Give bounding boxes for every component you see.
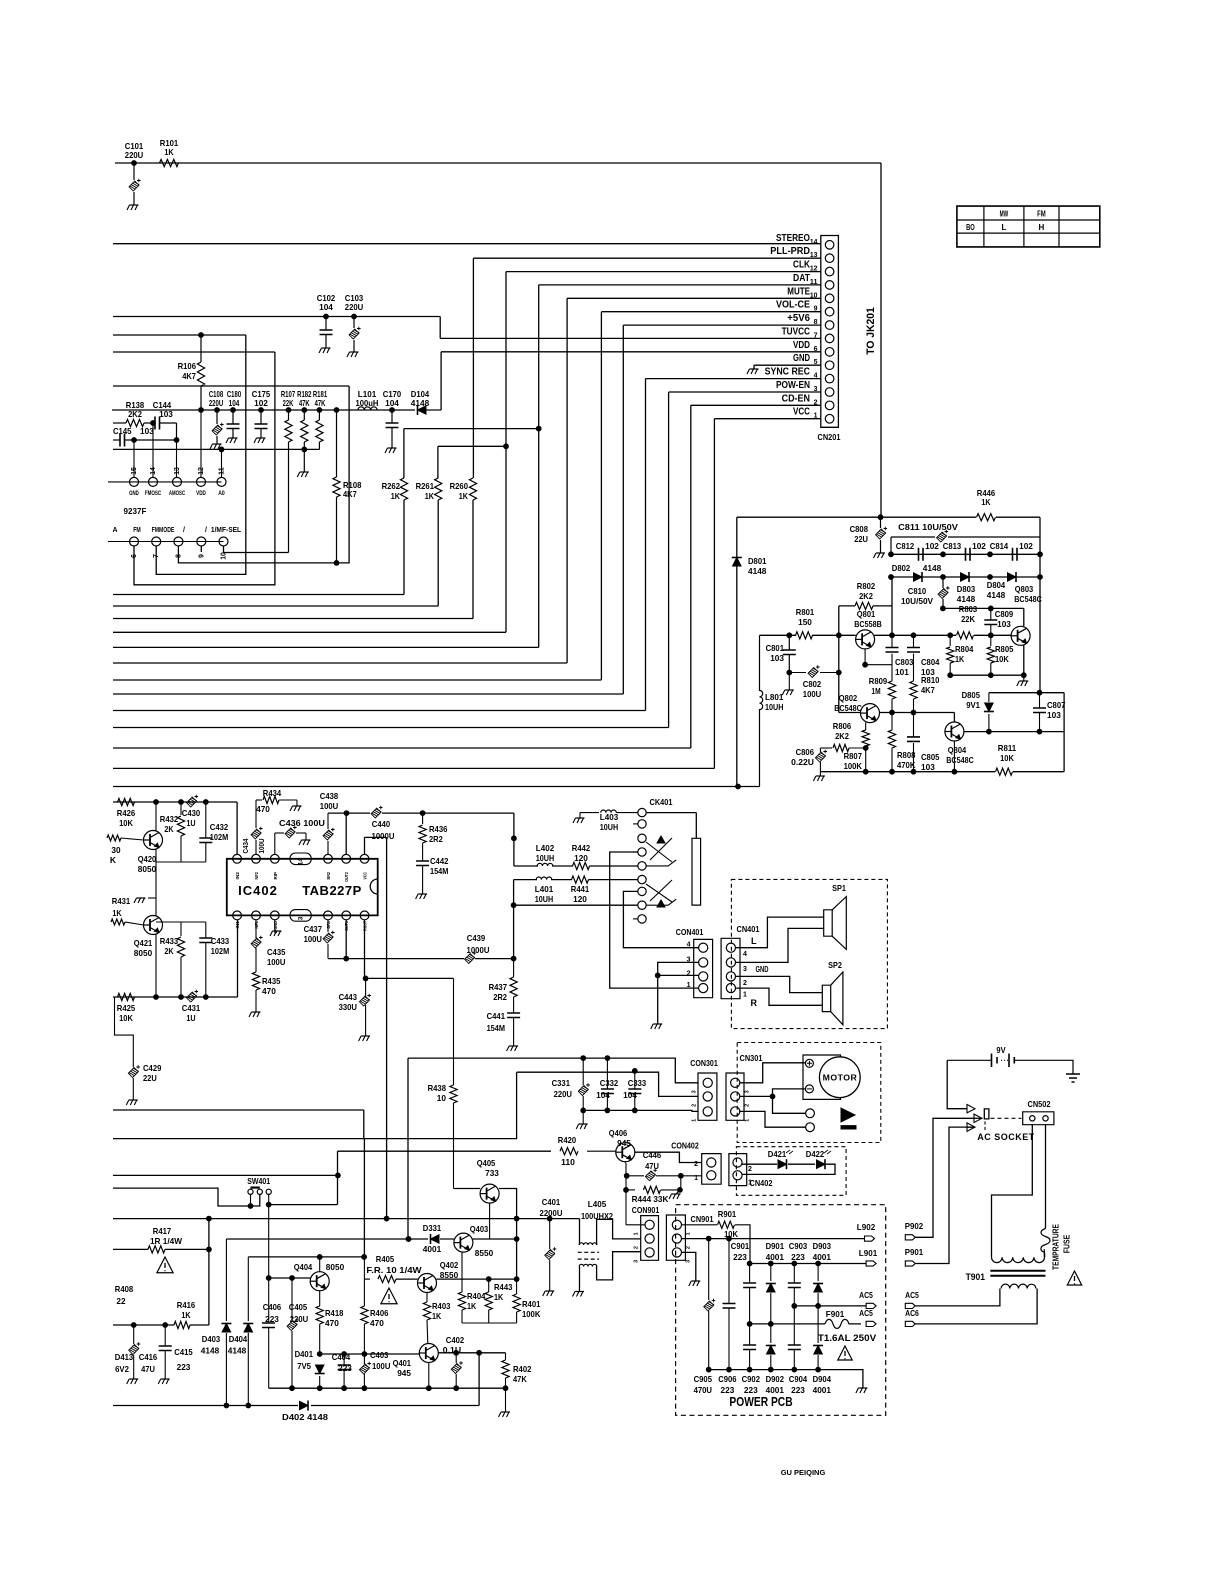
transformer T901 secondary [1001,1284,1036,1288]
ground power bottom [856,1388,868,1393]
svg-text:4001: 4001 [766,1252,785,1262]
capacitor C810 [901,577,950,611]
transformer T901 core [966,1271,1046,1282]
svg-text:223: 223 [177,1362,191,1372]
svg-text:C802: C802 [803,679,822,689]
resistor R107 [281,389,295,553]
svg-text:R: R [750,998,757,1008]
resistor R802 [839,581,892,610]
IC 9237F pin 15 GND [129,467,139,497]
CN201 pin 10 circle [787,285,834,302]
wire jack top to bar [646,813,696,839]
wire AC5 right to transformer [915,1289,1000,1306]
wire Q801 row right y635.3 [874,633,1011,638]
capacitor C807 [1033,693,1066,734]
transistor Q406 [609,1128,635,1162]
svg-text:R442: R442 [572,843,591,853]
ground R182 [297,472,309,477]
CON901 pin 1 [634,1220,655,1235]
AC socket arrows [967,1105,982,1132]
svg-text:100U: 100U [372,1361,390,1371]
CN301 pin 3 [731,1078,751,1093]
svg-text:Q403: Q403 [470,1224,489,1234]
terminal L901 [859,1248,878,1266]
wire CN401 pin2 to SP2 [736,976,823,992]
wire R182 ground stem [302,447,307,472]
capacitor C804 [907,648,940,678]
capacitor C443 [339,978,371,1036]
svg-text:H: H [1039,223,1045,232]
ground C180 [226,438,238,443]
svg-text:CON901: CON901 [632,1205,660,1215]
dashed link to CN502 [991,1117,1022,1119]
capacitor C801 [766,635,796,675]
svg-text:CON301: CON301 [690,1058,718,1068]
svg-text:R420: R420 [558,1135,577,1145]
label POWER PCB [729,1394,792,1409]
capacitor C416 [139,1325,172,1379]
wire bus line y663 [113,298,567,663]
svg-text:10K: 10K [119,1013,134,1023]
svg-text:C810: C810 [908,586,927,596]
svg-text:Q801: Q801 [857,609,876,619]
svg-text:1: 1 [686,1232,692,1235]
jack CK401 contact y812.6 [638,808,646,816]
svg-text:103: 103 [159,409,173,419]
label Q803 [1014,584,1042,604]
svg-text:8050: 8050 [326,1262,345,1272]
capacitor C808 [850,517,888,553]
CN201 pin 7 circle [782,325,834,342]
svg-text:R805: R805 [995,644,1014,654]
svg-text:R401: R401 [522,1299,541,1309]
wire L902 line y1238.3 [682,1236,865,1241]
IC 9237F pin 7 [152,537,161,558]
CN201 pin 2 circle [782,392,834,409]
svg-text:GU PEIQING: GU PEIQING [781,1468,826,1477]
svg-text:2: 2 [748,1166,752,1173]
IC 9237F pin 12 VDD [196,467,206,497]
ground C429 [126,1100,138,1105]
svg-text:NF2: NF2 [254,872,259,880]
svg-text:1: 1 [694,1175,698,1182]
wire pin12 VDD rail [199,408,204,478]
jack CK401 contact y905.2 [638,901,646,909]
svg-text:Q803: Q803 [1015,584,1034,594]
resistor R806 [820,721,865,752]
power PCB dashed box [676,1205,886,1416]
resistor R418 [316,1291,344,1357]
wire Q802 row y712.5 [879,713,954,723]
wire top rail y163 [115,162,881,164]
inductor L801 [760,690,784,712]
wire CN301 pin2 to motor minus [739,1089,805,1099]
svg-text:22K: 22K [283,398,294,408]
svg-text:4148: 4148 [201,1346,220,1356]
transformer L405 secondary [579,1252,641,1292]
wire pin8 path [178,386,349,563]
svg-text:223: 223 [338,1363,352,1373]
svg-text:R810: R810 [921,675,940,685]
svg-text:R443: R443 [494,1282,513,1292]
svg-text:/: / [183,527,185,534]
CON402 pin 1 [694,1171,716,1182]
svg-text:SP2: SP2 [828,960,842,970]
resistor R808 [888,730,916,770]
wire D805 line y692.7 [989,692,1064,694]
jack CK401 contact y865.9 [638,862,646,870]
wire jack7 to CON401 pin4 [623,891,698,947]
label GND [756,965,769,974]
svg-text:154M: 154M [430,866,448,876]
wire CN401 pin4 to SP1 [736,917,824,948]
svg-text:C145: C145 [113,426,132,436]
CON401 pin 1 [687,982,708,993]
svg-text:4001: 4001 [423,1244,442,1254]
resistor R803 [957,604,978,639]
svg-text:TEMPRATURE: TEMPRATURE [1051,1224,1061,1270]
terminal AC5 right [905,1290,919,1309]
svg-text:C436 100U: C436 100U [279,818,325,828]
resistor R801 [796,607,815,639]
svg-text:223: 223 [791,1385,805,1395]
resistor R260 [450,258,477,618]
svg-text:C441: C441 [487,1011,506,1021]
CN301 pin 1 [731,1107,751,1122]
motor body [803,1055,860,1099]
svg-text:CN201: CN201 [818,432,841,442]
capacitor C103 [345,293,364,352]
capacitor C415 [174,1347,193,1372]
svg-text:FUSE: FUSE [1062,1235,1072,1254]
svg-text:220U: 220U [345,302,363,312]
resistor R401 [513,1279,541,1323]
svg-text:FM: FM [1037,210,1046,219]
svg-text:1K: 1K [391,491,401,501]
svg-text:1K: 1K [181,1310,191,1320]
wire L901 top bus y1263.5 [747,1261,866,1266]
wire Q401 base line y1354 [320,1352,420,1357]
svg-text:1: 1 [692,1119,698,1122]
svg-text:1/MF-SEL: 1/MF-SEL [211,527,242,534]
wire pin2 CD-EN [691,404,821,406]
ground CON401 [651,1024,663,1029]
wire pin8 +5V6 [623,324,821,326]
svg-text:104: 104 [623,1090,637,1100]
CN201 pin 9 circle [776,299,834,316]
wire bus line y727.5 [113,392,669,728]
svg-text:C901: C901 [731,1241,750,1251]
CN201 pin 6 circle [793,339,834,356]
svg-text:R436: R436 [429,824,448,834]
ground R435 [249,1012,261,1017]
svg-text:MUTE: MUTE [787,285,810,297]
svg-text:470: 470 [262,986,276,996]
wire bus line y618.5 [113,618,473,620]
motor switch contact upper [806,1108,855,1122]
ground C443 [359,1036,371,1041]
capacitor C433 [199,922,229,997]
wire bus line y647.4 [113,285,539,648]
jack CK401 contact y891.4 [638,887,646,895]
svg-text:C331: C331 [552,1078,571,1088]
resistor R434 [256,788,297,814]
table MW FM [957,206,1100,247]
wire bottom bus y1369.6 [709,1370,863,1388]
svg-text:C406: C406 [263,1302,282,1312]
svg-text:104: 104 [229,398,240,408]
svg-text:3: 3 [692,1090,698,1093]
svg-text:8550: 8550 [475,1248,494,1258]
jack stubs [633,824,638,919]
label CN402 [750,1178,773,1188]
svg-text:SW401: SW401 [247,1176,270,1186]
ground C441 [507,1046,518,1051]
wire D404 top line y1256.9 [248,1255,366,1260]
svg-text:C430: C430 [182,808,201,818]
jack CK401 label [650,797,673,807]
wire pin7 path [156,335,246,574]
svg-text:R801: R801 [796,607,815,617]
resistor R405 [364,1254,423,1283]
capacitor C405 [287,1278,308,1391]
wire R417 line y1249.4 [113,1247,211,1252]
capacitor C434 with R434 [243,800,266,854]
speaker SP1 [824,883,847,949]
svg-text:IN2: IN2 [235,872,240,880]
svg-text:C435: C435 [267,947,286,957]
IC402 top pin NF2 [252,854,261,879]
svg-text:4001: 4001 [813,1385,832,1395]
wire pin10 MUTE [567,297,821,299]
svg-text:C433: C433 [211,936,230,946]
wire pin11 DAT [539,284,821,286]
svg-text:TUVCC: TUVCC [782,325,811,337]
svg-text:C808: C808 [850,524,869,534]
label CN901 [691,1214,714,1224]
ground CN901 pin3 [689,1281,701,1286]
svg-text:223: 223 [265,1314,279,1324]
svg-text:0.22U: 0.22U [791,757,814,767]
svg-text:1K: 1K [459,491,469,501]
svg-text:220U: 220U [290,1314,308,1324]
capacitor C108 [209,389,224,444]
terminal AC5 upper [859,1290,876,1309]
ground C801 C802 [782,673,794,696]
svg-text:AC SOCKET: AC SOCKET [977,1132,1035,1142]
svg-text:GND: GND [793,352,810,364]
wire OUT1 to y958.6 [344,920,349,961]
wire top rail x881 from y163 [880,163,882,517]
svg-text:CK401: CK401 [650,797,673,807]
label CON401 [676,927,704,937]
svg-text:D402 4148: D402 4148 [282,1412,328,1422]
svg-text:L405: L405 [588,1199,607,1209]
wire R-channel drop x513.9 [512,813,517,866]
switch SW401 [247,1176,271,1206]
CN201 pin 12 circle [793,259,834,276]
svg-text:FM: FM [133,527,141,534]
capacitor C431 [182,990,201,1023]
svg-text:100U: 100U [267,957,285,967]
wire R404 R443 R401 bottoms [462,1322,517,1324]
capacitor C438 [320,791,339,854]
transistor Q804 [945,722,974,765]
svg-text:102M: 102M [211,946,229,956]
wire y1188.1 line to SW401 [113,1188,260,1208]
wire ROUT to y978.4 [363,920,368,981]
svg-text:2: 2 [743,980,747,987]
wire Q801 row y635.3 [760,633,856,638]
svg-text:22U: 22U [854,534,868,544]
svg-text:L902: L902 [857,1222,876,1232]
svg-text:100U: 100U [803,689,821,699]
svg-text:14: 14 [298,858,305,865]
wire DAT tap y428.6 [404,426,541,431]
CN401 pin 4 [726,943,747,958]
terminal L902 [857,1222,876,1241]
wire SP1 return to pin3 [736,928,824,962]
svg-text:D404: D404 [229,1334,248,1344]
svg-text:945: 945 [397,1368,411,1378]
svg-text:BC548C: BC548C [946,755,974,765]
svg-text:C429: C429 [143,1063,162,1073]
capacitor C439 [465,933,490,964]
wire Q420 rail x156 [155,802,157,997]
svg-text:470: 470 [256,804,270,814]
resistor R441 [571,876,590,904]
svg-text:100U: 100U [304,934,322,944]
wire arrow3 from P901 [967,1126,974,1128]
svg-text:22K: 22K [961,614,976,624]
diode D804 [987,572,1016,600]
svg-text:L402: L402 [536,843,555,853]
svg-text:MW: MW [1000,210,1009,219]
svg-text:4001: 4001 [813,1252,832,1262]
svg-text:VDD: VDD [196,491,206,497]
wire R432 C432 mid join [156,862,206,922]
svg-text:13: 13 [174,467,181,475]
transistor Q802 [834,693,879,723]
terminal P901 [905,1247,924,1266]
diode D104 [411,389,441,415]
svg-text:C813: C813 [943,541,962,551]
transistor Q405 [477,1158,499,1203]
IC402 top pin IN2 [233,854,242,879]
svg-text:4148: 4148 [411,398,430,408]
svg-text:101: 101 [895,667,909,677]
wire AC5 upper line y1305.9 [794,1305,866,1307]
wire motor line y1072.2 [517,1069,699,1097]
svg-text:R807: R807 [844,751,863,761]
svg-text:2R2: 2R2 [429,834,443,844]
CN201 pin 13 circle [770,245,834,262]
svg-text:10UH: 10UH [536,853,554,863]
capacitor C429 [115,997,162,1100]
svg-text:2K2: 2K2 [859,591,873,601]
svg-text:C401: C401 [542,1197,561,1207]
diode D802 [892,563,942,582]
svg-text:223: 223 [721,1385,735,1395]
svg-text:AMOSC: AMOSC [169,491,186,497]
wire CN301 pin1 to motor plus [739,1063,805,1083]
svg-text:2: 2 [692,1104,698,1107]
transistor Q403 [454,1224,494,1258]
ground C416 [158,1379,170,1384]
ground C108 [210,444,222,449]
IC 9237F pin 14 FMOSC [145,467,162,497]
wire D402 line y1405.5 [113,1405,479,1407]
svg-text:A: A [112,527,117,534]
capacitor C436 [275,818,325,854]
svg-text:Q405: Q405 [477,1158,496,1168]
svg-text:2: 2 [745,1104,751,1107]
svg-text:C416: C416 [139,1352,158,1362]
wire bottom row y771.7 [820,693,1064,776]
wire Q406 collector to CON402 pin2 [635,1152,702,1162]
CN201 pin 5 circle [793,352,834,369]
wire L801 rail [759,635,761,786]
wire y335 rail [113,334,246,336]
diode D903 D904 rail [813,1241,832,1395]
wire Q401 emitter [426,1362,431,1390]
IC402 body [227,859,378,916]
connector CN201 body [821,236,839,428]
ground C102 [319,348,331,353]
svg-text:R901: R901 [718,1209,737,1219]
CN301 pin 2 [731,1092,751,1107]
svg-text:C405: C405 [289,1302,308,1312]
capacitor C813 [943,541,986,561]
svg-text:4148: 4148 [923,563,942,573]
IC 9237F pin 13 AMOSC [169,467,186,497]
wire L403 ground feed [573,813,599,823]
terminal AC6 [905,1308,919,1327]
svg-text:1K: 1K [494,1292,504,1302]
svg-text:47U: 47U [141,1364,155,1374]
svg-text:4K7: 4K7 [182,371,196,381]
wire Q801 base rail / Q802 base [839,712,861,714]
resistor R446 [977,488,996,521]
IC402 top pin OUT2 [342,854,351,882]
transformer L405 primary [579,1219,641,1245]
CN901 pin 1 [672,1220,691,1235]
svg-text:R437: R437 [489,982,508,992]
IC402 pin oval 14 [290,853,311,865]
resistor R138 [113,400,151,427]
svg-text:R416: R416 [177,1300,196,1310]
CON401 pin 4 [687,942,708,953]
wire jack4 drop to CON401 pin1 [610,852,699,988]
ground C436 [299,840,311,845]
ground R434 [290,806,302,811]
svg-text:D421: D421 [768,1149,787,1159]
svg-text:10UH: 10UH [765,702,783,712]
wire Q401 right line y1352.8 [438,1350,505,1355]
svg-text:FMMODE: FMMODE [152,527,175,534]
svg-text:R408: R408 [115,1284,134,1294]
svg-text:Q802: Q802 [839,693,858,703]
svg-text:150: 150 [798,617,812,627]
wire pin10 path [224,546,289,553]
svg-text:1K: 1K [981,497,991,507]
svg-text:4148: 4148 [987,590,1006,600]
transistor Q401 [393,1344,439,1379]
wire pin6 path [134,352,275,585]
svg-text:IN1: IN1 [235,921,240,929]
wire Q804 to bottom [952,741,957,774]
wire C803 R809 R808 rail x892 [890,635,895,774]
